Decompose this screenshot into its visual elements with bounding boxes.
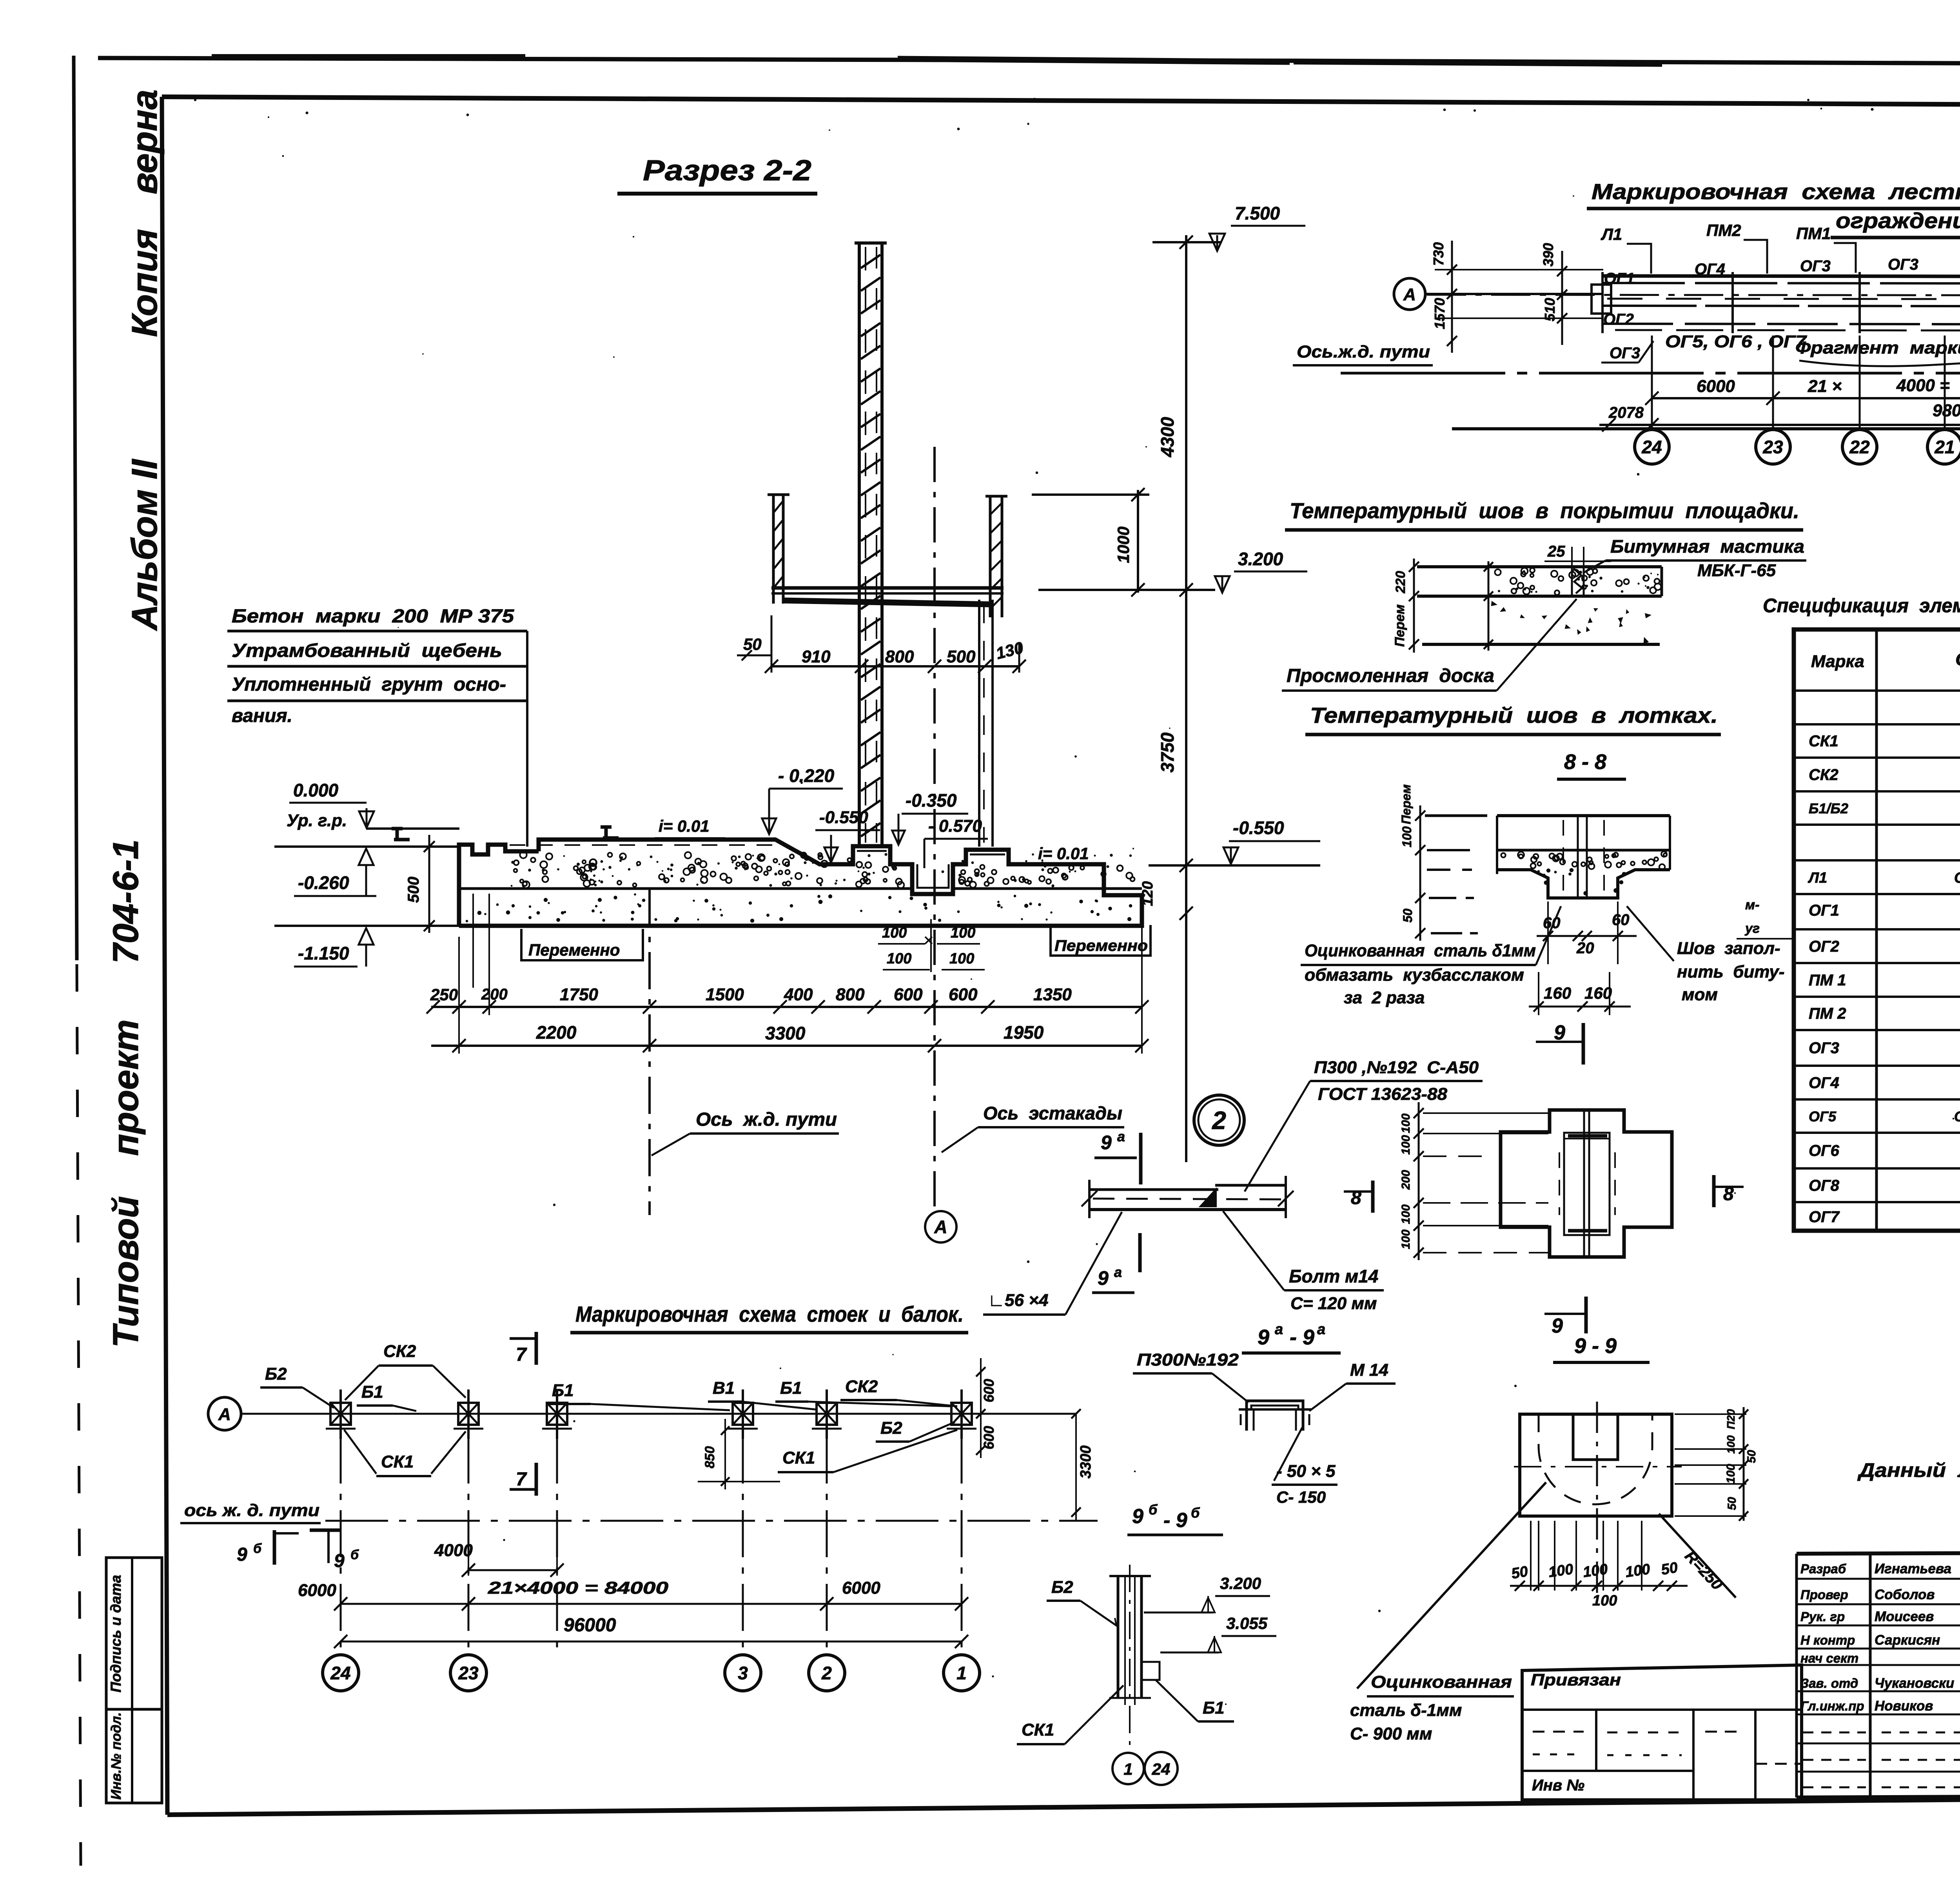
svg-text:Зав. отд: Зав. отд xyxy=(1800,1676,1858,1690)
svg-text:Маркировочная схема лестниц: Маркировочная схема лестниц площадок пер… xyxy=(1592,179,1960,204)
section mark 9 top xyxy=(1582,1023,1585,1065)
svg-text:Серия 1.459-2 вып.4: Серия 1.459-2 вып.4 xyxy=(1954,1108,1960,1125)
svg-text:Марка: Марка xyxy=(1811,652,1864,671)
scheme bottom line xyxy=(1452,427,1960,430)
svg-text:704-6-1: 704-6-1 xyxy=(106,839,146,963)
svg-text:850: 850 xyxy=(702,1446,717,1469)
svg-text:Б1/Б2: Б1/Б2 xyxy=(1809,800,1848,816)
platform band top chord xyxy=(1602,276,1960,277)
svg-text:6000: 6000 xyxy=(298,1581,336,1600)
svg-text:Температурный шов в покрыти: Температурный шов в покрытии площадки. xyxy=(1290,498,1799,523)
foundation right step xyxy=(1103,864,1105,895)
dim 96000 xyxy=(341,1641,962,1643)
svg-text:8 - 8: 8 - 8 xyxy=(1564,750,1606,774)
svg-text:1: 1 xyxy=(1123,1760,1132,1778)
svg-text:ПМ1: ПМ1 xyxy=(1796,224,1831,243)
svg-text:Л1: Л1 xyxy=(1808,870,1827,886)
svg-text:- 0.220: - 0.220 xyxy=(778,765,835,786)
svg-text:ОГ3: ОГ3 xyxy=(1809,1039,1839,1057)
svg-text:250: 250 xyxy=(430,985,458,1004)
svg-text:Просмоленная доска: Просмоленная доска xyxy=(1287,666,1494,686)
svg-text:ОГ1: ОГ1 xyxy=(1809,902,1839,919)
svg-text:а: а xyxy=(1114,1264,1122,1280)
svg-text:i= 0.01: i= 0.01 xyxy=(1038,844,1089,863)
svg-text:9: 9 xyxy=(1098,1267,1109,1289)
svg-text:проект: проект xyxy=(106,1019,146,1156)
svg-text:500: 500 xyxy=(405,877,422,903)
svg-text:ОГ2: ОГ2 xyxy=(1603,311,1634,328)
svg-text:СК2: СК2 xyxy=(1809,766,1838,784)
svg-text:вания.: вания. xyxy=(232,706,292,726)
svg-text:верна: верна xyxy=(125,89,165,194)
svg-text:910: 910 xyxy=(802,647,831,666)
svg-text:С- 900 мм: С- 900 мм xyxy=(1350,1724,1432,1743)
svg-text:Н контр: Н контр xyxy=(1800,1633,1855,1647)
svg-text:б: б xyxy=(1191,1505,1200,1521)
svg-text:ОГ2: ОГ2 xyxy=(1809,938,1839,955)
svg-text:МБК-Г-65: МБК-Г-65 xyxy=(1697,561,1776,580)
svg-text:600: 600 xyxy=(981,1426,997,1449)
gravel hatch xyxy=(683,868,690,875)
svg-text:9: 9 xyxy=(1258,1326,1269,1349)
joint section slab xyxy=(1417,565,1662,568)
svg-text:3300: 3300 xyxy=(1078,1446,1094,1479)
svg-text:- 0.570: - 0.570 xyxy=(928,816,982,836)
svg-text:Перем: Перем xyxy=(1399,784,1413,824)
svg-text:М 14: М 14 xyxy=(1350,1360,1388,1380)
svg-text:за 2 раза: за 2 раза xyxy=(1344,988,1425,1007)
svg-text:ОГ1: ОГ1 xyxy=(1604,270,1635,287)
svg-text:3.200: 3.200 xyxy=(1238,549,1283,569)
svg-text:- 9: - 9 xyxy=(1163,1509,1187,1532)
svg-text:б: б xyxy=(1149,1502,1158,1518)
svg-text:200: 200 xyxy=(1399,1170,1412,1190)
svg-text:50: 50 xyxy=(1745,1450,1758,1463)
box Привязан xyxy=(1522,1665,1802,1800)
svg-text:ПМ2: ПМ2 xyxy=(1706,221,1741,239)
svg-text:ПМ 1: ПМ 1 xyxy=(1809,972,1846,989)
foundation band divider xyxy=(459,887,912,890)
svg-text:2: 2 xyxy=(1212,1106,1226,1134)
dim 1000 xyxy=(1137,490,1139,593)
svg-text:Ур. г.р.: Ур. г.р. xyxy=(287,811,347,830)
label Переменно left xyxy=(521,929,643,960)
svg-text:50: 50 xyxy=(1726,1497,1739,1510)
svg-text:100: 100 xyxy=(1624,1561,1651,1580)
svg-text:Л1: Л1 xyxy=(1601,225,1622,243)
svg-text:Данный лист читать совместн: Данный лист читать совместно с листами А… xyxy=(1857,1459,1960,1481)
svg-text:Уплотненный грунт осно-: Уплотненный грунт осно- xyxy=(232,674,506,695)
svg-text:20: 20 xyxy=(1576,940,1594,957)
svg-text:Ось эстакады: Ось эстакады xyxy=(983,1103,1122,1123)
dim row 2200 3300 1950 xyxy=(431,1045,1142,1047)
9б-9б column xyxy=(1109,1575,1151,1577)
left margin box Подпись и дата xyxy=(106,1558,162,1709)
svg-text:Фрагмент маркировочной схемы: Фрагмент маркировочной схемы№1 xyxy=(1795,338,1960,357)
svg-text:3.200: 3.200 xyxy=(1220,1574,1261,1592)
svg-text:Новиков: Новиков xyxy=(1875,1698,1933,1714)
svg-text:Разрез 2-2: Разрез 2-2 xyxy=(643,154,811,187)
svg-text:ОГ3: ОГ3 xyxy=(1888,256,1918,273)
svg-text:Гл.инж.пр: Гл.инж.пр xyxy=(1800,1699,1864,1713)
svg-text:2: 2 xyxy=(821,1663,832,1683)
svg-text:i= 0.01: i= 0.01 xyxy=(659,817,710,835)
svg-text:Оцинкованная: Оцинкованная xyxy=(1371,1672,1512,1692)
svg-text:Перем: Перем xyxy=(1392,604,1407,647)
svg-text:Типовой: Типовой xyxy=(106,1196,146,1348)
svg-text:100: 100 xyxy=(887,950,911,967)
label Переменно right xyxy=(1051,925,1151,956)
svg-text:21×4000 = 84000: 21×4000 = 84000 xyxy=(488,1578,669,1598)
svg-text:50: 50 xyxy=(1510,1563,1529,1582)
svg-text:а: а xyxy=(1275,1321,1283,1338)
trough inner dashed U xyxy=(1539,1414,1652,1504)
vertical dimension line xyxy=(1185,235,1187,1162)
platform right post xyxy=(985,495,1007,498)
svg-text:6000: 6000 xyxy=(842,1578,880,1598)
svg-text:100: 100 xyxy=(1400,826,1414,847)
svg-text:обмазать кузбасслаком: обмазать кузбасслаком xyxy=(1305,965,1524,985)
scan top edge line xyxy=(98,58,1960,66)
svg-text:1000: 1000 xyxy=(1114,526,1132,563)
svg-text:Б2: Б2 xyxy=(880,1418,902,1438)
title block bottom xyxy=(1797,1794,1960,1797)
svg-text:П300 ,№192 С-А50: П300 ,№192 С-А50 xyxy=(1314,1058,1479,1077)
svg-text:ограждении.: ограждении. xyxy=(1836,208,1960,233)
svg-text:200: 200 xyxy=(481,986,508,1003)
svg-text:2200: 2200 xyxy=(536,1022,577,1043)
trough right dims xyxy=(1675,1413,1746,1415)
svg-text:Привязан: Привязан xyxy=(1531,1670,1621,1689)
svg-text:22: 22 xyxy=(1849,437,1870,457)
svg-text:100: 100 xyxy=(1547,1561,1574,1580)
svg-text:Оцинкованная сталь δ1мм: Оцинкованная сталь δ1мм xyxy=(1305,941,1536,960)
end blocks xyxy=(1592,285,1611,314)
svg-text:ОГ5, ОГ6 , ОГ7: ОГ5, ОГ6 , ОГ7 xyxy=(1665,332,1808,351)
title block top xyxy=(1797,1551,1960,1554)
svg-text:-0.550: -0.550 xyxy=(1233,818,1284,838)
joint gap xyxy=(1571,567,1573,596)
svg-text:100: 100 xyxy=(1399,1204,1412,1224)
svg-text:Обозначение: Обозначение xyxy=(1955,649,1960,669)
platform band bottom chord xyxy=(1602,306,1960,307)
svg-text:СК2: СК2 xyxy=(383,1342,416,1361)
svg-text:220: 220 xyxy=(1393,571,1408,594)
scan left edge line xyxy=(74,56,77,960)
svg-text:1350: 1350 xyxy=(1033,985,1072,1004)
rail track axis xyxy=(648,890,651,1215)
svg-text:А: А xyxy=(934,1217,947,1237)
foundation outline xyxy=(459,840,1142,926)
axis circle A bottom xyxy=(925,1211,956,1242)
svg-text:24: 24 xyxy=(1641,437,1662,457)
svg-text:Саркисян: Саркисян xyxy=(1875,1632,1940,1648)
svg-text:100: 100 xyxy=(949,950,974,967)
svg-text:ОГ7: ОГ7 xyxy=(1809,1208,1840,1226)
svg-text:Б2: Б2 xyxy=(1051,1578,1073,1597)
svg-text:7.500: 7.500 xyxy=(1235,203,1280,223)
svg-text:4300: 4300 xyxy=(1157,417,1178,457)
trough inner notch xyxy=(1573,1414,1618,1460)
svg-text:Игнатьева: Игнатьева xyxy=(1875,1561,1951,1576)
axis drop lines xyxy=(340,1436,342,1653)
svg-text:390: 390 xyxy=(1540,243,1556,267)
svg-text:а: а xyxy=(1317,1321,1325,1338)
svg-text:600: 600 xyxy=(981,1379,997,1402)
svg-text:СК1: СК1 xyxy=(1809,733,1838,750)
axis circles xyxy=(323,1655,359,1691)
svg-text:Инв.№ подл.: Инв.№ подл. xyxy=(109,1712,124,1800)
svg-text:Б2: Б2 xyxy=(265,1364,287,1384)
svg-text:24: 24 xyxy=(1152,1760,1171,1778)
svg-text:Провер: Провер xyxy=(1800,1587,1848,1602)
svg-text:Битумная мастика: Битумная мастика xyxy=(1610,536,1804,557)
svg-text:С= 120 мм: С= 120 мм xyxy=(1290,1294,1377,1313)
svg-text:1950: 1950 xyxy=(1004,1022,1044,1043)
svg-text:Бетон марки 200 МР 375: Бетон марки 200 МР 375 xyxy=(232,606,514,627)
svg-text:21 ×: 21 × xyxy=(1808,377,1842,396)
svg-text:ГОСТ 13623-88: ГОСТ 13623-88 xyxy=(1318,1085,1448,1104)
panel divider posts xyxy=(1601,272,1604,333)
svg-text:3750: 3750 xyxy=(1157,732,1178,773)
svg-text:3300: 3300 xyxy=(765,1023,806,1043)
svg-text:50: 50 xyxy=(1660,1559,1679,1578)
dim row 2078 / 98000 / 2078 xyxy=(1599,424,1960,426)
svg-text:3.055: 3.055 xyxy=(1226,1614,1268,1632)
section mark 9 bottom xyxy=(1584,1297,1588,1333)
svg-text:ОГ5: ОГ5 xyxy=(1809,1108,1837,1125)
svg-text:60: 60 xyxy=(1612,911,1630,929)
svg-text:∟56 ×4: ∟56 ×4 xyxy=(988,1291,1048,1310)
svg-text:100: 100 xyxy=(1592,1592,1617,1609)
svg-text:Ось.ж.д. пути: Ось.ж.д. пути xyxy=(1297,342,1430,361)
svg-text:Утрамбованный щебень: Утрамбованный щебень xyxy=(232,640,502,661)
beam with channel xyxy=(1089,1188,1218,1191)
svg-text:Разраб: Разраб xyxy=(1800,1562,1847,1576)
svg-text:Болт м14: Болт м14 xyxy=(1289,1266,1378,1286)
svg-text:100: 100 xyxy=(951,925,975,941)
svg-text:Маркировочная схема стоек и: Маркировочная схема стоек и балок. xyxy=(575,1302,964,1326)
svg-text:730: 730 xyxy=(1430,242,1446,266)
left dims 730/1570/390/510 xyxy=(1451,241,1453,353)
svg-text:96000: 96000 xyxy=(564,1615,616,1636)
svg-text:а: а xyxy=(1117,1128,1125,1144)
svg-text:9: 9 xyxy=(1552,1315,1563,1337)
svg-text:400: 400 xyxy=(784,985,813,1004)
svg-text:Моисеев: Моисеев xyxy=(1875,1609,1934,1624)
8-8 slab main xyxy=(1497,814,1670,817)
svg-text:100: 100 xyxy=(882,925,907,941)
left margin box Инв № подл xyxy=(106,1709,162,1803)
trough center line xyxy=(1596,1402,1598,1601)
svg-text:Чукановски: Чукановски xyxy=(1875,1676,1954,1691)
left dim 220 Перем xyxy=(1413,559,1415,653)
svg-text:Серия 1.459-2 вып. 4: Серия 1.459-2 вып. 4 xyxy=(1954,870,1960,886)
spec table grid xyxy=(1794,629,1960,1231)
svg-text:98000: 98000 xyxy=(1933,401,1960,420)
svg-text:50: 50 xyxy=(743,635,762,653)
svg-text:Рук. гр: Рук. гр xyxy=(1800,1609,1845,1624)
svg-text:Копия: Копия xyxy=(125,229,165,337)
section marks 7 xyxy=(510,1337,536,1340)
svg-text:Соболов: Соболов xyxy=(1875,1587,1935,1602)
svg-text:800: 800 xyxy=(885,647,914,666)
svg-text:1500: 1500 xyxy=(706,985,744,1004)
svg-text:Переменно: Переменно xyxy=(1054,937,1148,954)
svg-text:100: 100 xyxy=(1399,1135,1412,1155)
svg-text:-0.550: -0.550 xyxy=(819,808,868,827)
drawing frame bottom xyxy=(167,1794,1960,1815)
svg-text:ОГ4: ОГ4 xyxy=(1809,1074,1839,1092)
svg-text:Б1: Б1 xyxy=(361,1382,383,1402)
svg-text:4000 =: 4000 = xyxy=(1896,376,1950,395)
dim row 6000 / 21x4000=84000 / 6000 xyxy=(341,1603,962,1605)
svg-text:ОГ4: ОГ4 xyxy=(1695,261,1725,278)
svg-text:м-: м- xyxy=(1745,898,1759,912)
svg-text:Шов запол-: Шов запол- xyxy=(1677,939,1780,958)
svg-text:160: 160 xyxy=(1584,984,1612,1002)
axis circles 24..1 xyxy=(1651,336,1653,429)
svg-text:23: 23 xyxy=(458,1663,479,1683)
dim 500 vertical xyxy=(428,835,430,933)
svg-text:СК1: СК1 xyxy=(381,1452,414,1471)
svg-text:600: 600 xyxy=(949,985,978,1004)
axis circles 1 24 xyxy=(1112,1753,1144,1784)
svg-text:Спецификация элементов к ма: Спецификация элементов к маркировочным с… xyxy=(1763,595,1960,617)
svg-text:7: 7 xyxy=(516,1344,527,1365)
svg-text:9: 9 xyxy=(1101,1132,1112,1154)
8-8 left dims xyxy=(1419,805,1421,941)
8-8 dims 160 160 xyxy=(1529,1006,1631,1008)
concrete dots lower band xyxy=(537,911,540,915)
svg-text:нач сект: нач сект xyxy=(1800,1651,1858,1665)
svg-text:ОГ6: ОГ6 xyxy=(1809,1142,1840,1159)
dim 850 xyxy=(724,1419,726,1489)
9-9 plan outline xyxy=(1501,1110,1672,1257)
svg-text:ОГ8: ОГ8 xyxy=(1809,1177,1840,1194)
svg-text:- 50 × 5: - 50 × 5 xyxy=(1276,1462,1336,1481)
svg-text:А: А xyxy=(218,1405,231,1424)
svg-text:100 П20: 100 П20 xyxy=(1725,1409,1737,1454)
svg-text:ОГ3: ОГ3 xyxy=(1800,258,1831,275)
svg-text:Альбом II: Альбом II xyxy=(125,458,165,631)
svg-text:Б1: Б1 xyxy=(1203,1698,1225,1718)
svg-text:9: 9 xyxy=(1554,1021,1565,1044)
svg-text:0.000: 0.000 xyxy=(293,780,339,800)
8-8 dims 60 20 60 xyxy=(1537,935,1637,937)
rails xyxy=(392,829,410,840)
svg-text:1570: 1570 xyxy=(1432,298,1448,329)
platform band axis xyxy=(1427,295,1960,296)
svg-text:100: 100 xyxy=(1399,1230,1412,1249)
dim row 910 800 500 130 xyxy=(771,665,1019,667)
svg-text:9: 9 xyxy=(1132,1505,1143,1528)
detail circle 2 xyxy=(1194,1095,1244,1145)
svg-text:б: б xyxy=(253,1541,262,1556)
right rotated dims 600/600/3300 xyxy=(980,1358,982,1458)
svg-text:500: 500 xyxy=(947,647,976,666)
svg-text:СК2: СК2 xyxy=(845,1377,878,1396)
svg-text:9 - 9: 9 - 9 xyxy=(1574,1334,1617,1358)
svg-text:ПМ 2: ПМ 2 xyxy=(1809,1005,1846,1022)
pedestal hatches xyxy=(853,845,890,847)
svg-text:-1.150: -1.150 xyxy=(298,943,349,963)
svg-text:9: 9 xyxy=(334,1551,345,1571)
column symbols xyxy=(330,1403,351,1425)
9-9 inner dashed xyxy=(1564,1133,1610,1235)
svg-text:21: 21 xyxy=(1934,437,1955,457)
svg-text:100: 100 xyxy=(1724,1464,1737,1484)
svg-text:В1: В1 xyxy=(713,1378,735,1398)
svg-text:П300№192: П300№192 xyxy=(1137,1350,1239,1369)
svg-text:3: 3 xyxy=(738,1663,748,1683)
rail bed top line xyxy=(539,838,775,842)
dim row 250..1350 xyxy=(431,1006,1142,1008)
svg-text:1: 1 xyxy=(956,1663,967,1683)
svg-text:-0.260: -0.260 xyxy=(298,872,349,893)
8-8 joint lines xyxy=(1577,816,1579,898)
trough bottom dims xyxy=(1510,1585,1688,1587)
drawing frame top xyxy=(162,97,1960,107)
9-9 plan left dims xyxy=(1418,1102,1420,1260)
svg-text:СК1: СК1 xyxy=(782,1448,815,1467)
axis circle A xyxy=(208,1397,241,1430)
svg-text:сталь δ-1мм: сталь δ-1мм xyxy=(1350,1701,1462,1720)
8-8 slab left fragment xyxy=(1425,814,1487,817)
platform deck xyxy=(771,586,1004,590)
svg-text:ОГ3: ОГ3 xyxy=(1610,345,1640,362)
trough leaders xyxy=(1357,1482,1546,1689)
svg-text:7: 7 xyxy=(516,1469,527,1490)
svg-text:50: 50 xyxy=(1401,909,1415,923)
svg-text:СК1: СК1 xyxy=(1022,1720,1054,1739)
axis circle A xyxy=(1394,278,1425,310)
svg-text:100: 100 xyxy=(1399,1114,1412,1133)
svg-text:1750: 1750 xyxy=(560,985,598,1004)
svg-text:уг: уг xyxy=(1744,921,1760,936)
svg-text:б: б xyxy=(350,1547,359,1562)
svg-text:6000: 6000 xyxy=(1697,377,1735,396)
dim row 6000 / 21x4000=84000 / 6000 xyxy=(1652,397,1960,399)
trestle axis (dash-dot) xyxy=(933,447,936,1210)
label 50x5 С=150 xyxy=(1274,1427,1302,1481)
svg-text:24: 24 xyxy=(330,1663,350,1683)
svg-text:А: А xyxy=(1403,285,1416,304)
svg-text:Подпись и дата: Подпись и дата xyxy=(108,1575,124,1692)
svg-text:ось ж. д. пути: ось ж. д. пути xyxy=(184,1501,319,1520)
svg-text:23: 23 xyxy=(1762,437,1783,457)
signature table xyxy=(1795,1554,1798,1797)
svg-text:100: 100 xyxy=(1582,1561,1609,1580)
svg-text:-0.350: -0.350 xyxy=(906,790,957,811)
svg-text:800: 800 xyxy=(836,985,865,1004)
svg-text:9: 9 xyxy=(237,1544,247,1565)
svg-text:Переменно: Переменно xyxy=(528,941,620,959)
trough outer xyxy=(1520,1414,1672,1516)
svg-text:Ось ж.д. пути: Ось ж.д. пути xyxy=(696,1109,837,1130)
channel section xyxy=(1247,1401,1303,1409)
svg-text:Температурный шов в лотках.: Температурный шов в лотках. xyxy=(1310,703,1718,727)
svg-text:- 9: - 9 xyxy=(1290,1326,1314,1349)
platform left post xyxy=(768,493,789,496)
scan specks xyxy=(1145,446,1147,448)
svg-text:4000: 4000 xyxy=(434,1541,473,1560)
svg-text:Б1: Б1 xyxy=(780,1378,802,1398)
column hatch xyxy=(861,255,880,268)
svg-text:600: 600 xyxy=(894,985,923,1004)
svg-text:мом: мом xyxy=(1682,985,1718,1004)
svg-text:нить биту-: нить биту- xyxy=(1677,962,1784,981)
